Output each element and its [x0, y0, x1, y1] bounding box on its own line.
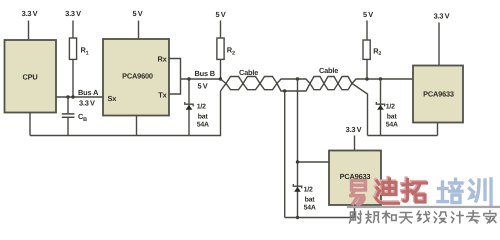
wire R2 to Bus B	[220, 59, 222, 79]
svg-text:bat: bat	[305, 196, 316, 203]
watermark underline	[347, 206, 500, 208]
wire right PCA9633 bottom	[437, 123, 439, 136]
LED driver PCA9633 U2 (middle)	[329, 151, 381, 206]
wire 3.3V to R1	[72, 21, 74, 39]
node Bus B	[181, 78, 222, 80]
svg-text:Bus A: Bus A	[78, 88, 99, 97]
svg-text:3.3 V: 3.3 V	[434, 12, 450, 21]
op PCA9600 buffer U1	[103, 39, 169, 116]
cable 1 twisted pair	[221, 77, 311, 92]
cable 2 twisted pair	[310, 77, 413, 136]
capacitor C_B	[62, 97, 75, 136]
wire 5V to R2	[220, 21, 222, 39]
svg-text:1/2: 1/2	[304, 187, 313, 194]
wire R2 right to bus	[366, 59, 368, 79]
wire right ground line	[368, 135, 438, 137]
svg-text:Sx: Sx	[108, 94, 118, 103]
svg-text:3.3 V: 3.3 V	[22, 9, 38, 18]
wire CPU bottom to ground bus	[29, 113, 31, 136]
watermark slogan strokes (gray)	[350, 211, 496, 224]
CPU block	[5, 40, 57, 113]
svg-text:5 V: 5 V	[216, 10, 226, 19]
junction ground line / diode D2	[296, 216, 299, 219]
diode D2 1/2 BAT54A	[293, 184, 301, 192]
wire R1 to Bus A	[72, 59, 74, 97]
resistor R2 right	[363, 40, 370, 59]
wire middle signal drop	[297, 79, 299, 218]
svg-text:1/2: 1/2	[386, 104, 395, 111]
junction Bus B / R2 / cable	[219, 77, 222, 80]
svg-text:54A: 54A	[197, 122, 209, 129]
junction Bus B / diode D1	[187, 77, 190, 80]
wire PCA9600 bottom to ground bus	[136, 116, 138, 136]
junction pair signal / middle tap	[296, 77, 299, 80]
wire 5V to PCA9600 top	[138, 21, 140, 40]
svg-text:1/2: 1/2	[197, 104, 206, 111]
diode D3 1/2 BAT54A	[376, 102, 384, 110]
wire tap to middle PCA9633	[298, 161, 330, 163]
diode D1 1/2 BAT54A	[185, 102, 193, 110]
wire 3.3V to middle PCA9633 top	[354, 136, 356, 151]
wire 5V to R2 right	[366, 21, 368, 41]
junction pair return / middle drop	[283, 89, 286, 92]
wire middle PCA9633 bottom	[354, 205, 356, 218]
svg-text:PCA9600: PCA9600	[122, 72, 153, 81]
svg-text:5 V: 5 V	[363, 10, 373, 19]
wire 3.3V to right PCA9633 top	[438, 23, 440, 66]
wire diode D3 drop	[380, 79, 382, 136]
resistor R2 left	[217, 38, 224, 59]
svg-text:3.3 V: 3.3 V	[65, 9, 81, 18]
node Bus A	[56, 96, 103, 98]
wire 3.3V to CPU top	[28, 21, 30, 41]
junction Bus A / C_B	[66, 95, 69, 98]
svg-text:54A: 54A	[304, 205, 316, 212]
wire middle ground line	[285, 217, 355, 219]
svg-text:Rx: Rx	[157, 55, 167, 64]
wire Rx to bracket	[169, 59, 181, 95]
svg-text:5 V: 5 V	[198, 82, 208, 91]
wire diode D1 drop	[188, 79, 190, 136]
LED driver PCA9633 U3 (right)	[413, 66, 463, 123]
svg-text:CPU: CPU	[22, 73, 37, 82]
svg-text:3.3 V: 3.3 V	[79, 98, 95, 107]
svg-text:3.3 V: 3.3 V	[346, 125, 362, 134]
junction Bus A / R1	[71, 95, 74, 98]
svg-text:bat: bat	[387, 113, 398, 120]
svg-text:Tx: Tx	[158, 90, 167, 99]
watermark logo strokes (red+blue)	[351, 178, 491, 205]
svg-text:54A: 54A	[386, 122, 398, 129]
svg-text:Bus B: Bus B	[195, 69, 215, 78]
svg-text:bat: bat	[198, 113, 209, 120]
svg-text:Cable: Cable	[239, 68, 258, 77]
svg-text:Cable: Cable	[319, 66, 338, 75]
svg-text:5 V: 5 V	[133, 9, 143, 18]
resistor R1	[69, 38, 76, 59]
wire middle ground drop	[284, 91, 286, 218]
wire left ground bus	[30, 91, 221, 136]
svg-text:PCA9633: PCA9633	[423, 90, 454, 99]
junction signal drop / box tap	[296, 160, 299, 163]
junction bus / R2 right	[365, 77, 368, 80]
junction bus / diode D3	[379, 77, 382, 80]
